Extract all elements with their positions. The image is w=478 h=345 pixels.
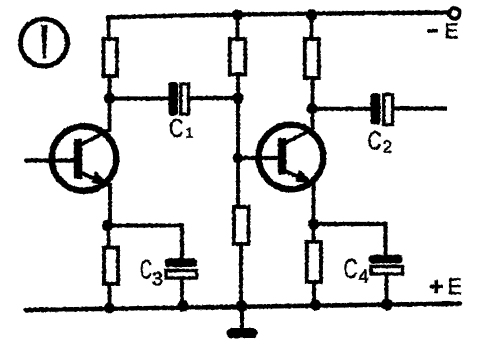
svg-text:1: 1 [186,125,194,141]
svg-text:C: C [140,255,152,285]
svg-text:4: 4 [359,267,369,287]
svg-text:C: C [368,128,382,156]
svg-text:2: 2 [383,137,393,157]
svg-text:C: C [344,253,358,284]
svg-text:E: E [448,274,463,299]
svg-text:C: C [169,115,184,143]
svg-text:3: 3 [152,269,163,291]
svg-text:E: E [445,20,459,43]
